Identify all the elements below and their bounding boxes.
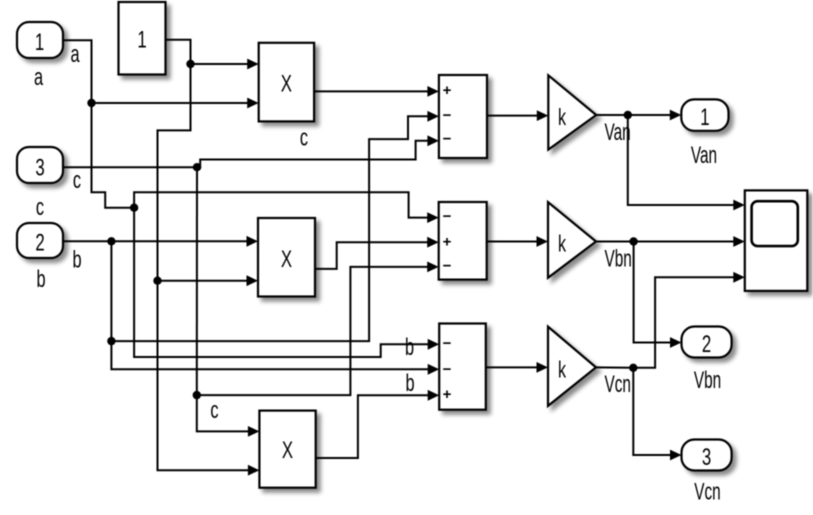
node c2 (junction on c lower) [193, 391, 201, 399]
outport 2 (Vbn) [682, 327, 732, 358]
sum S3 [439, 324, 486, 410]
svg-text:c: c [36, 194, 44, 221]
wire gain K2 to scope input 2 [596, 236, 745, 247]
wire Van to scope input 1 [628, 115, 745, 210]
svg-text:Van: Van [691, 143, 717, 169]
wire constant down the left channel to product X3 input 2 [158, 64, 260, 476]
wire b: inport2 to product X2 input 1 [64, 236, 258, 247]
node b2 (junction on b lower) [107, 337, 115, 345]
node k2 (junction on constant vertical) [153, 277, 161, 285]
svg-text:a: a [70, 41, 80, 68]
svg-text:Vcn: Vcn [694, 479, 720, 505]
wire c: inport3 to junction [64, 166, 197, 168]
svg-text:−: − [443, 335, 452, 352]
svg-text:Vcn: Vcn [605, 372, 631, 398]
svg-text:−: − [443, 208, 452, 225]
node b1 (junction on b) [107, 237, 115, 245]
sum S2 [439, 202, 487, 280]
inport 2 (b) [17, 223, 63, 258]
svg-text:c: c [300, 124, 308, 151]
svg-text:1: 1 [35, 29, 44, 56]
svg-text:3: 3 [35, 155, 44, 182]
wire c to sum S1 input 3 [197, 135, 439, 167]
wire a to product X1 input 2 [92, 98, 259, 109]
svg-text:X: X [281, 246, 292, 273]
wire sum S1 to gain K1 [487, 110, 548, 121]
sum S1 [439, 75, 487, 158]
gain K1 [548, 75, 596, 149]
product X1 [259, 43, 314, 122]
svg-text:−: − [443, 130, 452, 147]
svg-text:Van: Van [605, 120, 631, 146]
wire c down to lower junction [196, 167, 198, 395]
wire Vcn to scope input 3 [633, 272, 745, 368]
wire a: inport1 to branch [63, 40, 134, 208]
wire b to sum S1 input 2 [111, 111, 439, 341]
svg-text:3: 3 [702, 444, 711, 471]
wire c to product X3 input 1 [197, 395, 260, 437]
scope block [745, 190, 808, 291]
wire Vcn to outport 3 [633, 368, 681, 461]
gain K3 [548, 327, 596, 406]
svg-text:b: b [405, 370, 414, 397]
svg-text:Vbn: Vbn [694, 368, 721, 394]
svg-text:k: k [558, 358, 566, 383]
svg-text:a: a [34, 64, 44, 91]
svg-text:−: − [443, 258, 452, 275]
inport 1 (a) [17, 22, 63, 58]
svg-text:b: b [405, 334, 414, 361]
wire b down to sum S3 input 2 [111, 241, 439, 374]
svg-text:2: 2 [35, 230, 44, 257]
svg-text:−: − [443, 361, 452, 378]
node c1 (junction on c) [193, 163, 201, 171]
product X3 [259, 411, 315, 488]
svg-text:+: + [443, 82, 452, 99]
wire constant to product X1 input 1 [191, 59, 259, 70]
wire product X3 output to sum S3 input 3 [316, 390, 440, 458]
wire constant to branch [166, 40, 191, 64]
wire sum S3 to gain K3 [486, 362, 548, 373]
inport 3 (c) [17, 147, 63, 183]
svg-text:X: X [282, 437, 293, 464]
svg-text:X: X [281, 71, 292, 98]
product X2 [258, 218, 315, 297]
svg-text:b: b [72, 246, 81, 273]
svg-text:Vbn: Vbn [605, 246, 632, 272]
svg-text:1: 1 [700, 104, 709, 131]
wire gain K1 to outport 1 [596, 110, 681, 121]
wire a to sum S2 input 1 [134, 192, 439, 223]
wire gain K3 to junction [596, 366, 633, 368]
outport 1 (Van) [681, 99, 728, 130]
constant block 1 [119, 2, 166, 75]
node a2 (branch of a) [130, 204, 138, 212]
gain K2 [548, 202, 596, 278]
wire sum S2 to gain K2 [487, 236, 548, 247]
svg-text:k: k [558, 105, 566, 130]
svg-text:2: 2 [702, 331, 711, 358]
node v2 (junction Vbn) [629, 237, 637, 245]
svg-text:+: + [443, 386, 452, 403]
svg-text:k: k [558, 232, 566, 257]
node v3 (junction Vcn) [629, 364, 637, 372]
svg-text:+: + [443, 234, 452, 251]
svg-text:c: c [210, 397, 218, 424]
wire Vbn to outport 2 [634, 242, 682, 348]
node a1 (junction on a at X1 row) [87, 99, 95, 107]
wire c to sum S2 input 3 [197, 262, 439, 396]
wire product X2 output to sum S2 input 2 [315, 237, 439, 269]
node v1 (junction Van) [624, 111, 632, 119]
svg-text:1: 1 [137, 27, 146, 54]
svg-text:−: − [443, 107, 452, 124]
svg-text:b: b [36, 266, 45, 293]
node k1 (junction on constant) [186, 60, 194, 68]
svg-text:c: c [73, 167, 81, 194]
wire product X1 output to sum S1 input 1 [314, 86, 439, 97]
wire a to sum S3 input 1 [134, 208, 439, 357]
wire constant to product X2 input 2 [158, 275, 259, 286]
outport 3 (Vcn) [682, 440, 732, 471]
